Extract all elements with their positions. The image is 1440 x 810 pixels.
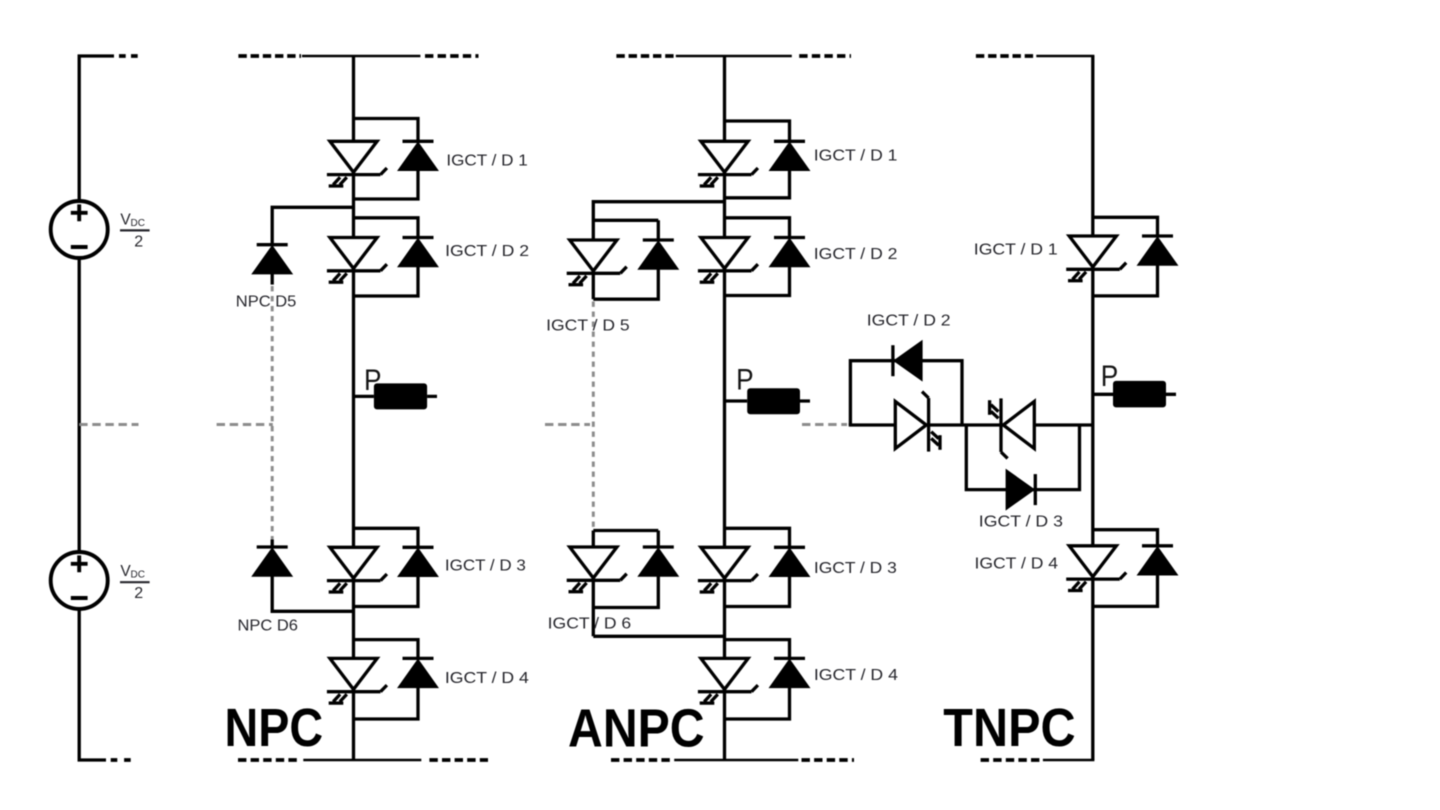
- IGCT 6 (ANPC): [567, 547, 627, 592]
- svg-text:NPC D5: NPC D5: [236, 293, 296, 310]
- wire TNPC top bus dashed left: [976, 54, 1035, 58]
- diode D1 (NPC Q1/D1): [398, 141, 438, 170]
- wire cell NPC Q4/D4 parallel-branch: [354, 640, 419, 719]
- diode D4 (TNPC Q4/D4): [1138, 546, 1178, 575]
- wire DC-link bottom rail corner: [79, 609, 106, 760]
- wire cell TNPC Q4/D4 parallel-branch: [1093, 530, 1158, 607]
- wire TNPC neutral branch (Q2 to Q3): [926, 423, 1003, 426]
- wire NPC top bus dashed right: [425, 54, 479, 58]
- wire TNPC top bus: [1036, 55, 1094, 58]
- svg-text:IGCT / D 1: IGCT / D 1: [814, 147, 898, 164]
- wire ANPC clamp Q6 to leg: [593, 531, 724, 637]
- wire below ANPC Q5 cell: [592, 271, 595, 299]
- clamp diode NPC D5: [252, 245, 292, 274]
- IGCT 3 (NPC Q3/D3): [327, 547, 387, 592]
- neutral midline dashed segment A (from DC link): [79, 423, 138, 426]
- wire NPC bottom bus: [303, 759, 421, 762]
- diode D2 (TNPC, pointing left): [893, 341, 922, 381]
- wire NPC top bus dashed left: [238, 54, 301, 58]
- svg-text:IGCT / D 3: IGCT / D 3: [445, 557, 526, 574]
- wire ANPC clamp Q5 to leg: [593, 202, 724, 240]
- svg-text:NPC D6: NPC D6: [238, 618, 298, 635]
- svg-text:IGCT / D 1: IGCT / D 1: [446, 153, 527, 170]
- wire TNPC neutral branch (left to Q2): [849, 423, 896, 426]
- svg-text:IGCT / D 2: IGCT / D 2: [814, 246, 898, 263]
- svg-text:IGCT / D 6: IGCT / D 6: [548, 616, 632, 633]
- svg-text:ANPC: ANPC: [568, 700, 705, 759]
- diode D1 (TNPC Q1/D1): [1138, 236, 1178, 265]
- wire cell ANPC Q3/D3 parallel-branch: [725, 528, 790, 606]
- diode D5 (ANPC): [638, 240, 678, 269]
- IGCT 4 (TNPC Q4/D4): [1066, 546, 1126, 591]
- wire NPC phase leg: [352, 56, 355, 760]
- dashed neutral riser ANPC (Q5 to Q6): [592, 302, 595, 529]
- wire DC-link bottom rail dashed continuation: [111, 758, 132, 762]
- wire ANPC bottom bus dashed right: [802, 758, 855, 762]
- IGCT 5 (ANPC): [567, 240, 627, 285]
- svg-text:DC: DC: [131, 570, 145, 581]
- wire cell ANPC Q6/D6 parallel-branch: [593, 531, 658, 608]
- neutral midline dashed segment D (to TNPC branch): [802, 423, 847, 426]
- wire NPC bottom bus dashed left: [238, 758, 301, 762]
- IGCT 1 (ANPC Q1/D1): [698, 141, 758, 186]
- wire DC-link top rail corner: [79, 56, 114, 201]
- svg-text:2: 2: [134, 585, 143, 602]
- svg-text:DC: DC: [131, 218, 145, 229]
- wire TNPC bottom bus dashed left: [981, 758, 1042, 762]
- wire NPC clamp D5 to leg: [272, 207, 353, 244]
- wire ANPC phase leg: [723, 56, 726, 760]
- svg-text:IGCT / D 4: IGCT / D 4: [445, 670, 529, 687]
- diode D2 (ANPC Q2/D2): [770, 238, 810, 267]
- IGCT 2 (NPC Q2/D2): [327, 238, 387, 283]
- IGCT 2 (ANPC Q2/D2): [698, 238, 758, 283]
- wire below NPC D5: [271, 274, 274, 285]
- wire ANPC top bus: [676, 55, 792, 58]
- diode D6 (ANPC): [638, 547, 678, 576]
- voltage source V2 minus sign: [71, 596, 88, 600]
- IGCT 1 (NPC Q1/D1): [327, 141, 387, 186]
- voltage source V2 circle: [51, 552, 108, 609]
- svg-text:IGCT / D 4: IGCT / D 4: [975, 555, 1059, 572]
- diode D4 (ANPC Q4/D4): [770, 658, 810, 687]
- wire TNPC bottom bus: [1043, 759, 1095, 762]
- diode D2 (NPC Q2/D2): [398, 238, 438, 267]
- neutral midline dashed segment B (to NPC clamp): [217, 423, 273, 426]
- wire TNPC phase output P: [1093, 393, 1176, 396]
- wire ANPC top bus dashed right: [799, 54, 851, 58]
- wire cell NPC Q1/D1 parallel-branch: [354, 119, 419, 200]
- IGCT 1 (TNPC Q1/D1): [1066, 236, 1126, 281]
- IGCT 4 (NPC Q4/D4): [327, 658, 387, 703]
- wire cell ANPC Q5/D5 parallel-branch: [593, 220, 658, 299]
- neutral midline dashed segment C (to ANPC clamp): [545, 423, 590, 426]
- wire loop of diode D2 (TNPC): [850, 361, 962, 425]
- voltage source V1 plus sign: [71, 204, 88, 221]
- svg-text:2: 2: [134, 233, 143, 250]
- svg-text:P: P: [364, 364, 382, 397]
- svg-text:NPC: NPC: [225, 699, 324, 758]
- svg-text:IGCT / D 5: IGCT / D 5: [546, 318, 629, 335]
- diode D1 (ANPC Q1/D1): [770, 141, 810, 170]
- diode D3 (ANPC Q3/D3): [770, 547, 810, 576]
- wire TNPC phase leg: [1091, 56, 1094, 760]
- voltage source V1 circle: [51, 201, 108, 258]
- wire ANPC phase output P: [725, 399, 811, 402]
- wire TNPC neutral branch (Q3 to leg): [1034, 423, 1093, 426]
- svg-text:IGCT / D 3: IGCT / D 3: [979, 514, 1063, 531]
- voltage source V1 minus sign: [71, 245, 88, 249]
- svg-text:P: P: [1101, 360, 1119, 393]
- svg-text:IGCT / D 3: IGCT / D 3: [814, 560, 897, 577]
- voltage source V2 plus sign: [71, 555, 88, 572]
- svg-text:IGCT / D 2: IGCT / D 2: [867, 313, 951, 330]
- diode D4 (NPC Q4/D4): [398, 658, 438, 687]
- wire above NPC D6: [271, 540, 274, 548]
- wire NPC clamp D6 to leg: [272, 576, 353, 611]
- wire cell ANPC Q2/D2 parallel-branch: [725, 218, 790, 296]
- svg-text:P: P: [736, 363, 754, 396]
- diode D3 (TNPC, pointing right): [1006, 470, 1035, 510]
- wire ANPC bottom bus dashed left: [611, 758, 673, 762]
- load block P (TNPC): [1113, 381, 1166, 408]
- wire cell TNPC Q1/D1 parallel-branch: [1093, 217, 1158, 296]
- wire NPC bottom bus dashed right: [429, 758, 488, 762]
- svg-text:IGCT / D 2: IGCT / D 2: [445, 243, 529, 260]
- svg-text:IGCT / D 1: IGCT / D 1: [974, 242, 1058, 259]
- wire cell NPC Q2/D2 parallel-branch: [354, 218, 419, 296]
- IGCT 3 (TNPC, pointing left): [990, 398, 1035, 458]
- svg-text:IGCT / D 4: IGCT / D 4: [814, 667, 899, 684]
- wire ANPC top bus dashed left: [616, 54, 674, 58]
- wire cell ANPC Q1/D1 parallel-branch: [725, 121, 790, 198]
- wire NPC phase output P: [354, 395, 438, 398]
- wire loop of diode D3 (TNPC): [966, 425, 1079, 490]
- IGCT 4 (ANPC Q4/D4): [698, 658, 758, 703]
- wire NPC top bus: [302, 55, 420, 58]
- IGCT 2 (TNPC, pointing right): [895, 392, 940, 452]
- wire cell NPC Q3/D3 parallel-branch: [354, 528, 419, 606]
- wire DC-link middle segment: [78, 258, 81, 552]
- wire cell ANPC Q4/D4 parallel-branch: [725, 640, 790, 719]
- load block P (ANPC): [747, 388, 800, 414]
- wire ANPC bottom bus: [674, 759, 798, 762]
- IGCT 3 (ANPC Q3/D3): [698, 547, 758, 592]
- clamp diode NPC D6: [252, 547, 292, 576]
- wire DC-link top rail dashed continuation: [119, 54, 138, 58]
- svg-text:TNPC: TNPC: [943, 699, 1075, 758]
- diode D3 (NPC Q3/D3): [398, 547, 438, 576]
- dashed neutral riser NPC (D5 to D6): [271, 286, 274, 540]
- load block P (NPC): [374, 383, 427, 409]
